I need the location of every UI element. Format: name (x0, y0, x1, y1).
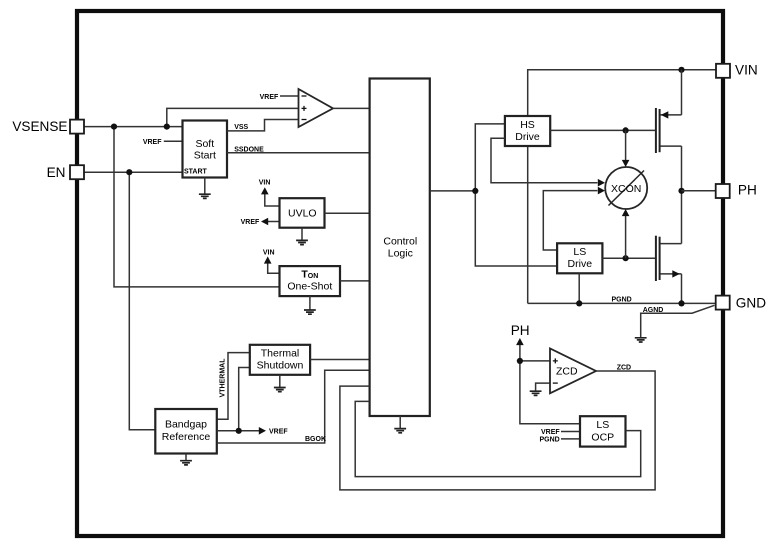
svg-text:LS: LS (573, 246, 586, 258)
svg-text:ZCD: ZCD (617, 365, 631, 372)
svg-text:VREF: VREF (143, 139, 162, 146)
wire PGND rail to GND pin (528, 302, 716, 304)
wire VREF stub into LS OCP (561, 431, 580, 433)
block HS Drive (505, 116, 550, 146)
pin VSENSE (70, 120, 84, 134)
svg-text:One-Shot: One-Shot (287, 281, 332, 293)
ground AGND symbol (635, 338, 647, 342)
block UVLO (280, 198, 325, 228)
svg-text:VIN: VIN (263, 250, 275, 257)
wire VIN arrow into Ton One-Shot (264, 256, 280, 273)
wire driver node up to HS Drive input (475, 124, 505, 191)
svg-text:Drive: Drive (515, 131, 540, 143)
svg-text:VIN: VIN (259, 179, 271, 186)
junction driver node (472, 188, 478, 194)
svg-text:PH: PH (511, 323, 530, 338)
transistor Q2 low-side FET (656, 236, 682, 281)
svg-text:XCON: XCON (611, 183, 641, 195)
svg-text:Drive: Drive (568, 258, 593, 270)
wire VREF arrow out of UVLO (261, 218, 280, 226)
junction VREF node (236, 428, 242, 434)
wire Ton One-Shot output to Control Logic (340, 280, 370, 282)
wire Thermal Shutdown lower input from VREF node (239, 368, 250, 431)
wire VTHERMAL from Bandgap to Thermal Shutdown (217, 353, 250, 420)
pin GND (716, 296, 730, 310)
svg-text:VREF: VREF (541, 429, 560, 436)
wire LS OCP output to Control Logic (long route) (355, 401, 641, 476)
junction LS gate to XCON (623, 255, 629, 261)
wire HS gate sense down into XCON (arrow) (622, 130, 630, 167)
wire VREF stub into comparator top minus input (280, 95, 299, 97)
wire HS Drive gate output to high-side FET (550, 129, 655, 131)
wire UVLO output to Control Logic (325, 212, 370, 214)
svg-text:VTHERMAL: VTHERMAL (219, 358, 226, 398)
svg-text:PH: PH (738, 183, 757, 198)
svg-text:LS: LS (596, 419, 609, 431)
svg-text:Control: Control (383, 235, 417, 247)
junction PH sense node (517, 358, 523, 364)
block LS Drive (557, 243, 602, 273)
wire low-side FET source to PGND rail (681, 274, 683, 304)
junction PH node (678, 188, 684, 194)
block Ton One-Shot (280, 266, 341, 296)
svg-text:VSS: VSS (234, 124, 248, 131)
wire LS Drive bottom to PGND rail (578, 273, 580, 303)
wire VSENSE pin to Soft Start (84, 126, 183, 128)
wire PH sense down to LS OCP input (520, 361, 580, 424)
wire PH sense arrow up (516, 338, 524, 361)
transistor Q1 high-side FET (656, 108, 682, 153)
ground at Control Logic (394, 416, 406, 433)
wire LS gate sense up into XCON (arrow) (622, 209, 630, 258)
svg-text:AGND: AGND (643, 307, 664, 314)
wire high-side FET source to PH node (681, 146, 683, 244)
junction low-side FET on PGND rail (678, 300, 684, 306)
wire ZCD - input to ground (536, 383, 550, 391)
pin PH (716, 184, 730, 198)
svg-text:Logic: Logic (388, 248, 413, 260)
svg-text:START: START (184, 169, 208, 176)
wire HS Drive sense to XCON left upper (arrow) (491, 138, 605, 186)
junction VSENSE-comparator (164, 124, 170, 130)
junction EN-Bandgap (126, 169, 132, 175)
svg-text:VIN: VIN (735, 63, 758, 78)
wire Thermal Shutdown output to Control Logic (310, 359, 370, 361)
svg-text:OCP: OCP (591, 431, 614, 443)
wire comparator output to Control Logic (333, 107, 370, 109)
svg-text:EN: EN (47, 165, 66, 180)
wire LS Drive gate output to low-side FET (602, 257, 655, 259)
ground at Thermal Shutdown (274, 375, 286, 392)
svg-text:Start: Start (194, 149, 216, 161)
ground at Ton One-Shot (304, 296, 316, 314)
svg-text:HS: HS (520, 119, 535, 131)
ground at UVLO (296, 228, 308, 245)
junction VSENSE-Ton (111, 124, 117, 130)
svg-text:PGND: PGND (539, 437, 559, 444)
block Thermal Shutdown (250, 345, 310, 375)
pin EN (70, 165, 84, 179)
wire EN branch down to Bandgap Reference input (129, 172, 155, 430)
junction LS Drive on PGND rail (576, 300, 582, 306)
wire driver node down to LS Drive input (475, 191, 557, 266)
wire VIN arrow into UVLO (261, 187, 280, 206)
ground at Bandgap Reference (180, 454, 192, 465)
block Soft Start (183, 121, 228, 178)
wire VSENSE branch down to Ton One-Shot input (114, 127, 280, 287)
op-amp ZCD comparator (550, 349, 596, 394)
junction HS gate to XCON (623, 127, 629, 133)
wire VSENSE branch up to comparator + input (167, 108, 299, 126)
wire Control Logic output to driver node (430, 190, 476, 192)
svg-text:ZCD: ZCD (556, 366, 578, 378)
svg-text:Shutdown: Shutdown (257, 360, 304, 372)
wire PGND stub into LS OCP (561, 438, 580, 440)
wire VSS from Soft Start to comparator lower minus input (227, 120, 299, 131)
svg-text:Bandgap: Bandgap (165, 419, 207, 431)
svg-text:Thermal: Thermal (261, 347, 300, 359)
wire LS Drive sense to XCON left lower (arrow) (543, 187, 605, 250)
wire BGOK from Bandgap to Control Logic (217, 370, 370, 443)
wire HS Drive bottom to PGND rail (527, 146, 529, 303)
svg-text:BGOK: BGOK (305, 436, 326, 443)
wire ZCD output to Control Logic (long route) (340, 371, 655, 490)
svg-text:VREF: VREF (269, 429, 288, 436)
op-amp comparator U1 (299, 89, 334, 127)
svg-text:VREF: VREF (260, 94, 279, 101)
svg-text:VREF: VREF (241, 219, 260, 226)
wire PH node to PH pin (682, 190, 716, 192)
svg-text:VSENSE: VSENSE (12, 119, 67, 134)
svg-text:Reference: Reference (162, 431, 211, 443)
svg-text:Soft: Soft (195, 138, 214, 150)
pin VIN (716, 64, 730, 78)
wire SSDONE from Soft Start to Control Logic (227, 152, 370, 154)
wire VREF output arrow from Bandgap (217, 427, 266, 435)
svg-text:UVLO: UVLO (288, 208, 317, 220)
wire EN pin to Soft Start START input (84, 171, 183, 173)
wire PH sense to ZCD + input (520, 360, 550, 362)
svg-text:GND: GND (736, 296, 766, 311)
svg-text:PGND: PGND (612, 296, 632, 303)
XCON crossed-circle block (605, 167, 647, 209)
wire AGND from GND pin to analog ground (641, 305, 715, 338)
wire VREF stub into Soft Start (164, 140, 183, 142)
block Control Logic (370, 79, 430, 417)
ground at Soft Start (199, 178, 211, 199)
junction VIN rail (678, 67, 684, 73)
svg-text:SSDONE: SSDONE (234, 147, 264, 154)
block LS OCP (580, 416, 626, 446)
wire high-side FET drain to VIN rail (681, 70, 683, 115)
wire VIN rail to HS Drive supply (528, 70, 716, 116)
ground at ZCD - input (530, 391, 542, 395)
block Bandgap Reference (155, 409, 217, 454)
